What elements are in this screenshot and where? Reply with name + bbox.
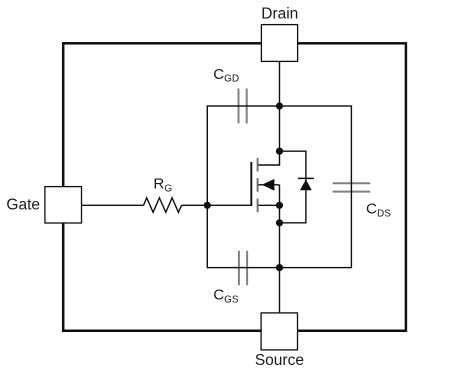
node drain junction bbox=[276, 148, 283, 155]
wire center drain line (Drain terminal to MOSFET drain lead) bbox=[258, 61, 279, 165]
wire inner loop (gate net left, CGD top, CGS bottom, CDS right) bbox=[207, 106, 351, 268]
outer package boundary box bbox=[63, 43, 406, 330]
wire resistor to gate node and MOSFET gate bbox=[182, 204, 252, 206]
transistor Q1 body arrow bbox=[262, 179, 275, 191]
wire MOSFET source lead bbox=[258, 204, 279, 206]
node gate junction bbox=[204, 202, 211, 209]
wire gate lead from Gate terminal to resistor bbox=[82, 204, 144, 206]
node CGS junction bbox=[276, 264, 283, 271]
wire center source line (MOSFET body/source to Source terminal) bbox=[279, 185, 281, 314]
node diode-bottom junction bbox=[276, 219, 283, 226]
node CGD junction bbox=[276, 102, 283, 109]
terminal square Gate bbox=[45, 187, 82, 223]
terminal square Drain bbox=[261, 25, 297, 62]
terminal square Source bbox=[261, 313, 297, 350]
wire body diode branch bbox=[280, 151, 306, 223]
transistor Q1 channel bar (dashed) bbox=[257, 158, 259, 212]
capacitor CDS plates bbox=[333, 183, 371, 191]
capacitor CGS plates bbox=[239, 251, 247, 285]
resistor RG bbox=[144, 198, 182, 212]
svg-text:Source: Source bbox=[255, 352, 304, 369]
wire MOSFET body lead bbox=[258, 184, 279, 186]
capacitor CGD plates bbox=[239, 89, 247, 124]
svg-text:Gate: Gate bbox=[6, 197, 40, 214]
svg-text:Drain: Drain bbox=[261, 5, 298, 22]
diode D1 triangle bbox=[300, 179, 312, 190]
transistor Q1 gate bar bbox=[250, 162, 252, 206]
diode D1 cathode bar bbox=[298, 177, 314, 179]
node source-lead junction bbox=[276, 202, 283, 209]
